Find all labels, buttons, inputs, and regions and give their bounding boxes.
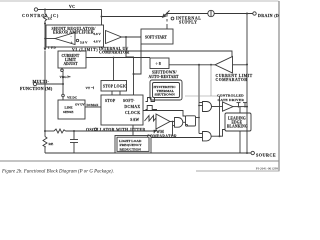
svg-text:STOP: STOP xyxy=(105,99,116,103)
gate driver U xyxy=(223,102,234,111)
wire LEB down xyxy=(239,131,241,153)
node VE xyxy=(62,94,65,97)
current source symbol xyxy=(208,10,214,16)
wire restart bus xyxy=(219,96,221,136)
wire pwm branch down xyxy=(172,122,174,137)
wire supply to control xyxy=(102,16,165,18)
wire into line sense xyxy=(62,97,64,100)
wire pwm out xyxy=(170,121,175,123)
resistor RC filter xyxy=(54,129,66,133)
wire M up xyxy=(62,72,64,84)
resistor RE xyxy=(44,131,46,137)
node VBG xyxy=(61,69,64,72)
svg-text:OV UV: OV UV xyxy=(75,102,85,106)
shunt regulator box xyxy=(46,25,104,47)
svg-text:PI-2641-061299: PI-2641-061299 xyxy=(256,167,279,171)
svg-text:÷ 8: ÷ 8 xyxy=(156,61,161,66)
wire VC top xyxy=(38,9,102,11)
node adjust out xyxy=(113,57,115,59)
wire Q to gateA xyxy=(199,105,203,107)
svg-text:SOURCE: SOURCE xyxy=(256,153,276,158)
svg-text:DRAIN (D: DRAIN (D xyxy=(258,13,279,18)
leading edge blanking box xyxy=(225,113,251,131)
svg-text:I FB: I FB xyxy=(48,46,56,50)
svg-text:SHUTDOWN: SHUTDOWN xyxy=(155,93,176,97)
wire driver to LEB xyxy=(239,107,241,113)
current limit adjust box xyxy=(58,51,86,68)
right rule xyxy=(278,1,280,171)
node source rail xyxy=(246,152,248,154)
node RC cap xyxy=(73,130,75,132)
svg-text:VI (LIMIT): VI (LIMIT) xyxy=(72,48,98,52)
wire DCMAX feed xyxy=(85,106,101,108)
terminal DRAIN (D) xyxy=(253,12,256,15)
terminal SOURCE (S) xyxy=(251,151,254,154)
zener ZC xyxy=(43,14,46,21)
node internal supply xyxy=(171,17,174,20)
output MOSFET xyxy=(238,103,240,107)
svg-text:REDUCTION: REDUCTION xyxy=(120,147,142,151)
node restart tap xyxy=(210,64,212,66)
waveform clock glyph xyxy=(146,98,158,102)
node FF Q xyxy=(198,117,200,119)
svg-text:VC: VC xyxy=(69,5,75,9)
wire gateC in xyxy=(151,137,203,139)
wire source rail xyxy=(45,152,253,154)
svg-text:Figure 2b. Functional Block D: Figure 2b. Functional Block Diagram (P o… xyxy=(1,170,114,175)
op-amp shunt regulator/error amplifier xyxy=(55,33,75,45)
wire clock to flip-flop xyxy=(143,111,186,117)
capacitor filter xyxy=(73,131,75,140)
svg-text:ADJUST: ADJUST xyxy=(64,62,79,66)
top rule xyxy=(0,0,279,2)
svg-text:AUTO-RESTART: AUTO-RESTART xyxy=(149,75,179,79)
svg-text:VBG ⊢: VBG ⊢ xyxy=(60,74,71,79)
node internal supply top xyxy=(166,13,168,15)
node mosfet drain xyxy=(246,106,248,108)
wire gateC out xyxy=(211,130,225,137)
line sense box xyxy=(58,100,85,119)
node pwm ref xyxy=(94,128,96,130)
comparator PWM xyxy=(156,114,170,129)
svg-text:VE DC: VE DC xyxy=(67,96,78,100)
wire zener branch xyxy=(44,10,46,15)
node pwm out xyxy=(172,121,174,123)
svg-text:BLANKING: BLANKING xyxy=(227,124,248,128)
wire M pin xyxy=(37,83,63,85)
svg-text:4.8 V: 4.8 V xyxy=(94,40,102,44)
waveform dcmax glyph xyxy=(146,106,158,110)
divide by 8 box xyxy=(150,58,169,69)
wire stop to osc xyxy=(111,91,113,95)
wire internal supply tap xyxy=(166,14,168,17)
wire FF Q out xyxy=(196,117,200,119)
node 5.8V ref xyxy=(76,39,78,41)
svg-text:DCMAX: DCMAX xyxy=(124,105,140,109)
oscillator box xyxy=(101,95,143,125)
wire UV output xyxy=(122,36,142,38)
soft start box xyxy=(141,29,173,44)
svg-text:FUNCTION (M): FUNCTION (M) xyxy=(20,86,53,91)
svg-text:SENSE: SENSE xyxy=(63,110,74,114)
stop logic box xyxy=(101,81,127,92)
wire UV to oscillator xyxy=(126,37,134,95)
svg-text:SUPPLY: SUPPLY xyxy=(179,20,198,25)
bottom rule xyxy=(0,160,280,162)
wire comp out down xyxy=(198,65,200,134)
wire stop to osc b xyxy=(119,91,121,95)
node gate feed xyxy=(198,64,200,66)
light load box outer xyxy=(115,136,151,154)
svg-text:CONTROL (C): CONTROL (C) xyxy=(22,13,59,18)
svg-text:DCMAX: DCMAX xyxy=(87,103,100,107)
svg-text:SAW: SAW xyxy=(130,118,139,122)
wire soft start down xyxy=(134,44,142,74)
wire sense in xyxy=(233,64,248,66)
svg-text:SOFT-: SOFT- xyxy=(123,99,135,103)
comparator current limit xyxy=(215,57,233,74)
node gateA in xyxy=(198,105,200,107)
wire drain bus xyxy=(167,13,208,15)
wire VI limit xyxy=(103,51,232,57)
and gate C xyxy=(203,132,212,141)
svg-text:+: + xyxy=(71,41,73,45)
waveform saw glyph xyxy=(145,116,159,122)
wire osc to light load xyxy=(132,125,134,136)
wire div8 to comparator xyxy=(169,64,215,66)
current arrow IFB xyxy=(44,43,46,49)
wire stop logic top xyxy=(86,57,150,59)
node RC left xyxy=(44,130,46,132)
node VC tap xyxy=(101,16,103,18)
wire control to RC node xyxy=(44,51,46,131)
and gate B xyxy=(175,118,183,128)
svg-text:SOFT START: SOFT START xyxy=(145,36,167,40)
node control junction xyxy=(44,9,46,11)
svg-text:COMPARATOR: COMPARATOR xyxy=(216,78,248,82)
node drain sense xyxy=(246,64,248,66)
svg-text:GATE DRIVER: GATE DRIVER xyxy=(218,98,245,102)
wire restart loop left xyxy=(185,95,211,97)
light load box inner xyxy=(117,137,149,151)
node restart bus xyxy=(219,135,221,137)
svg-text:5.8 V: 5.8 V xyxy=(80,41,88,45)
node drain branch xyxy=(246,13,248,15)
wire Q to gateC xyxy=(199,133,203,135)
wire below zener xyxy=(44,21,46,24)
node restart join xyxy=(133,73,135,75)
current source ICD arrow xyxy=(165,11,170,16)
terminal CONTROL (C) xyxy=(34,8,37,11)
svg-text:VT ⊣: VT ⊣ xyxy=(86,86,94,90)
wire drain down xyxy=(246,14,248,154)
terminal MULTI-FUNCTION (M) xyxy=(33,82,36,85)
node below zener xyxy=(44,23,46,25)
flip-flop latch xyxy=(186,116,196,126)
thermal shutdown inner box xyxy=(153,83,180,98)
wire restart loop xyxy=(211,65,220,96)
svg-text:5.8 V: 5.8 V xyxy=(94,32,102,36)
node M fork xyxy=(62,83,64,85)
wire gateA out xyxy=(212,106,223,108)
and gate A xyxy=(203,102,212,112)
wire M down xyxy=(62,84,64,94)
wire VC drop xyxy=(101,10,103,26)
svg-text:ERROR AMPLIFIER: ERROR AMPLIFIER xyxy=(53,31,94,35)
wire gateB to FF xyxy=(183,121,186,123)
thermal shutdown outer box xyxy=(150,80,182,100)
wire driver out xyxy=(233,106,247,108)
wire gateB lower input xyxy=(173,125,175,127)
wire control down xyxy=(44,24,46,44)
wire gateA in1 xyxy=(199,102,203,104)
footer rule xyxy=(196,170,280,172)
svg-text:STOP LOGIC: STOP LOGIC xyxy=(103,85,127,89)
wire RC to PWM xyxy=(45,130,54,132)
svg-text:RE: RE xyxy=(49,142,54,146)
svg-text:CLOCK: CLOCK xyxy=(125,111,141,115)
wire error amp output xyxy=(45,38,55,40)
wire OV UV to stop logic xyxy=(113,58,115,81)
comparator internal UV xyxy=(106,31,122,44)
node UV branch xyxy=(125,36,127,38)
node error amp output xyxy=(44,38,46,40)
svg-text:MULTI-: MULTI- xyxy=(33,79,50,84)
